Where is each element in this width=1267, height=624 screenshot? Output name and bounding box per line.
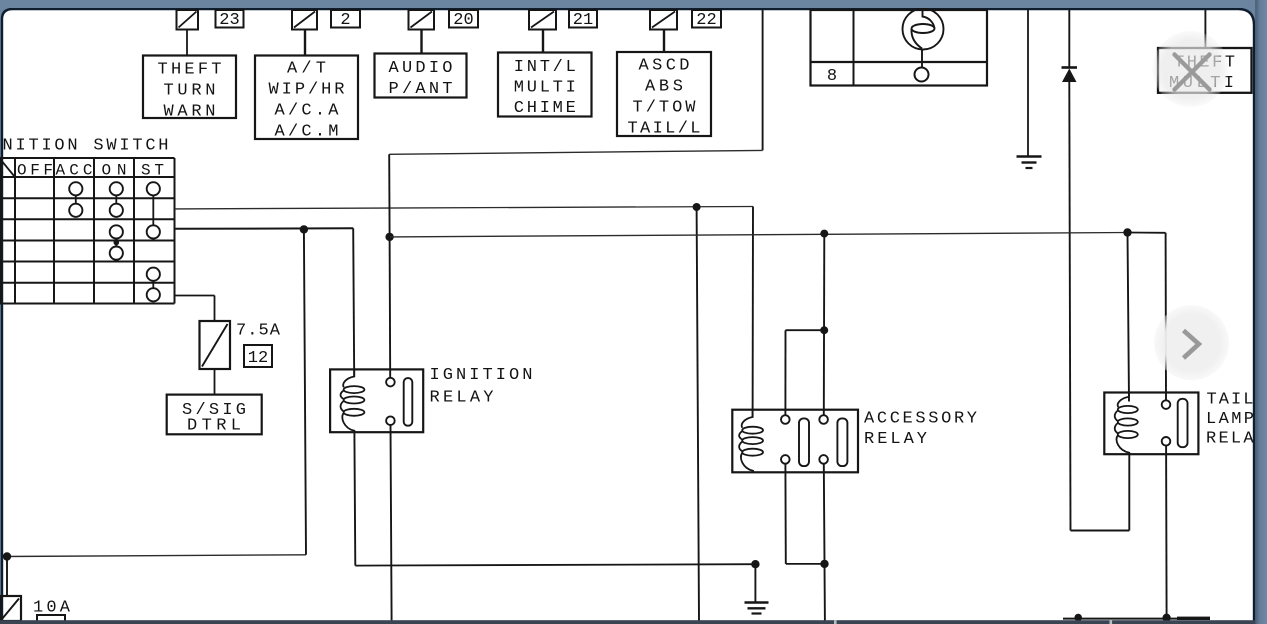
svg-text:P/ANT: P/ANT bbox=[389, 80, 453, 99]
junction node above 10A fuse bbox=[3, 552, 11, 560]
svg-text:22: 22 bbox=[696, 11, 716, 30]
connector box with lamp, cavity 8 bbox=[811, 10, 988, 86]
wire K2 contact2 bottom to bottom edge bbox=[824, 464, 825, 621]
value label 10A bbox=[33, 599, 71, 618]
wire to ground G1 bbox=[1027, 10, 1029, 156]
svg-text:T/TOW: T/TOW bbox=[633, 99, 697, 118]
relay K1 ignition relay box bbox=[330, 369, 423, 432]
wire fuse20 to AUDIO box bbox=[420, 30, 422, 54]
junction node on B' at tail relay bbox=[1123, 228, 1131, 236]
fuse F10 10A bbox=[1, 596, 22, 621]
wire branch to K2 contact 1 bbox=[785, 330, 824, 415]
wire from node B' down to K2 contacts bbox=[823, 234, 826, 416]
svg-text:ABS: ABS bbox=[645, 78, 683, 97]
viewer chrome bottom bar bbox=[0, 620, 1255, 624]
fuse F23 bbox=[177, 10, 199, 30]
relay K3 coil bbox=[1115, 393, 1138, 455]
svg-text:MULTI: MULTI bbox=[514, 79, 576, 98]
wire B' corner to K3 contact bbox=[1128, 233, 1167, 401]
svg-text:A/C.A: A/C.A bbox=[275, 102, 340, 121]
svg-text:OFF: OFF bbox=[17, 162, 53, 180]
svg-text:RELAY: RELAY bbox=[430, 389, 494, 408]
fuse number box 2 bbox=[331, 10, 360, 30]
wire diode down to tail relay coil bbox=[1069, 82, 1129, 531]
svg-text:2: 2 bbox=[340, 11, 350, 30]
junction on ON column bbox=[114, 240, 120, 246]
fuse F2 bbox=[292, 10, 317, 30]
load box A/T WIP/HR A/C.A A/C.M bbox=[255, 56, 358, 142]
box THEFT MULTI bbox=[1158, 48, 1252, 93]
svg-text:7.5A: 7.5A bbox=[236, 322, 281, 341]
wire K2 contact1 bottom to node bbox=[785, 464, 824, 564]
wire from node B down to 10A fuse bbox=[3, 229, 306, 596]
wire K3 contact bottom to bottom bus bbox=[1165, 446, 1168, 619]
junction node start of bus B' bbox=[385, 233, 393, 241]
svg-text:RELAY: RELAY bbox=[864, 430, 927, 449]
ignition switch S1 contact table bbox=[0, 158, 175, 304]
relay K2 contacts bbox=[781, 415, 847, 466]
relay K2 coil bbox=[739, 410, 763, 473]
fuse number box 20 bbox=[449, 10, 478, 30]
svg-text:8: 8 bbox=[827, 67, 837, 86]
wire K1 coil to ground bus D bbox=[354, 432, 755, 565]
svg-text:ACC: ACC bbox=[56, 162, 93, 180]
fuse F20 bbox=[409, 10, 435, 30]
svg-text:20: 20 bbox=[453, 11, 473, 30]
warning lamp bulb bbox=[903, 9, 944, 68]
wire switch to 7.5A fuse bbox=[175, 296, 215, 322]
junction node on bottom bus bbox=[1074, 614, 1082, 622]
fuse F22 bbox=[650, 10, 677, 30]
svg-text:CHIME: CHIME bbox=[514, 99, 576, 118]
bottom bus wire bbox=[1063, 617, 1210, 620]
svg-text:12: 12 bbox=[248, 349, 268, 368]
wire B' long bus to tail lamp relay bbox=[390, 233, 1128, 237]
wire fuse to S/SIG box bbox=[214, 369, 216, 395]
fuse F12 7.5A bbox=[200, 321, 231, 369]
load box THEFT TURN WARN bbox=[143, 56, 236, 122]
wire into THEFT MULTI box bbox=[1204, 10, 1206, 48]
diode D1 bbox=[1062, 68, 1078, 83]
junction node under K2 bbox=[820, 560, 828, 568]
svg-text:A/C.M: A/C.M bbox=[275, 123, 339, 142]
svg-text:A/T: A/T bbox=[287, 60, 326, 79]
label ACCESSORY RELAY bbox=[864, 410, 977, 450]
load box S/SIG DTRL bbox=[167, 395, 262, 436]
wire B: switch row to ignition relay coil bbox=[175, 228, 355, 377]
svg-text:THEFT: THEFT bbox=[158, 61, 222, 80]
relay K3 tail lamp relay box bbox=[1104, 393, 1198, 455]
relay K2 accessory relay box bbox=[732, 410, 858, 473]
fuse number box 23 bbox=[216, 10, 244, 30]
wire C: top feed to ignition relay contact bbox=[389, 10, 762, 237]
junction node ground bus bbox=[751, 560, 759, 568]
wire A: switch ON row to accessory relay coil bbox=[175, 207, 754, 418]
label IGNITION SWITCH bbox=[3, 137, 169, 156]
viewer chrome top bar bbox=[0, 0, 1267, 8]
wire fuse22 to ASCD box bbox=[663, 30, 665, 53]
value label 7.5A bbox=[236, 322, 281, 341]
wire fuse2 to A/T box bbox=[304, 30, 306, 56]
switch header labels OFF ACC ON ST bbox=[17, 162, 164, 180]
wire K1 contact top from node B' bbox=[389, 237, 392, 378]
svg-text:INT/L: INT/L bbox=[514, 58, 576, 77]
wire fuse23 to THEFT box bbox=[186, 30, 188, 56]
wire node to ground G2 bbox=[754, 564, 756, 601]
label TAIL LAMP RELAY bbox=[1206, 391, 1266, 449]
ground G2 bbox=[745, 603, 769, 614]
ground G1 bbox=[1017, 157, 1042, 169]
junction node contact branch bbox=[820, 326, 828, 334]
relay K1 coil bbox=[341, 369, 365, 432]
svg-text:AUDIO: AUDIO bbox=[389, 59, 453, 78]
wire K1 contact bottom to bottom edge bbox=[391, 425, 392, 621]
fuse number box 22 bbox=[692, 10, 721, 30]
load box AUDIO P/ANT bbox=[375, 54, 467, 100]
fuse number box 12 bbox=[244, 345, 272, 368]
load box INT/L MULTI CHIME bbox=[498, 53, 592, 119]
wire node B' to K3 coil bbox=[1128, 233, 1130, 402]
viewer chrome right column bbox=[1255, 0, 1267, 624]
relay K1 contacts bbox=[386, 378, 412, 426]
wire down from node A to bottom bbox=[697, 207, 699, 621]
fuse F21 bbox=[529, 10, 556, 30]
disabled close button overlay bbox=[1153, 31, 1229, 107]
junction node bottom bus at K3 bbox=[1162, 614, 1170, 622]
relay K3 contacts bbox=[1162, 399, 1188, 447]
svg-text:ACCESSORY: ACCESSORY bbox=[864, 410, 977, 429]
switch contact links bbox=[76, 195, 154, 288]
switch contact circles bbox=[69, 182, 160, 301]
label IGNITION RELAY bbox=[430, 366, 533, 408]
svg-text:23: 23 bbox=[219, 11, 239, 30]
fuse number box 21 bbox=[569, 10, 597, 30]
lamp connector pin bbox=[915, 68, 929, 82]
wire fuse21 to INT/L box bbox=[542, 30, 544, 53]
svg-text:21: 21 bbox=[573, 11, 593, 30]
load box ASCD ABS T/TOW TAIL/L bbox=[617, 52, 711, 139]
fuse number box bottom bbox=[37, 615, 65, 622]
junction node on B' at accessory relay bbox=[820, 230, 828, 238]
next page chevron button bbox=[1154, 305, 1229, 380]
junction node on wire A bbox=[693, 203, 701, 211]
wire into diode D1 bbox=[1068, 10, 1070, 68]
junction node on wire B bbox=[300, 225, 308, 233]
